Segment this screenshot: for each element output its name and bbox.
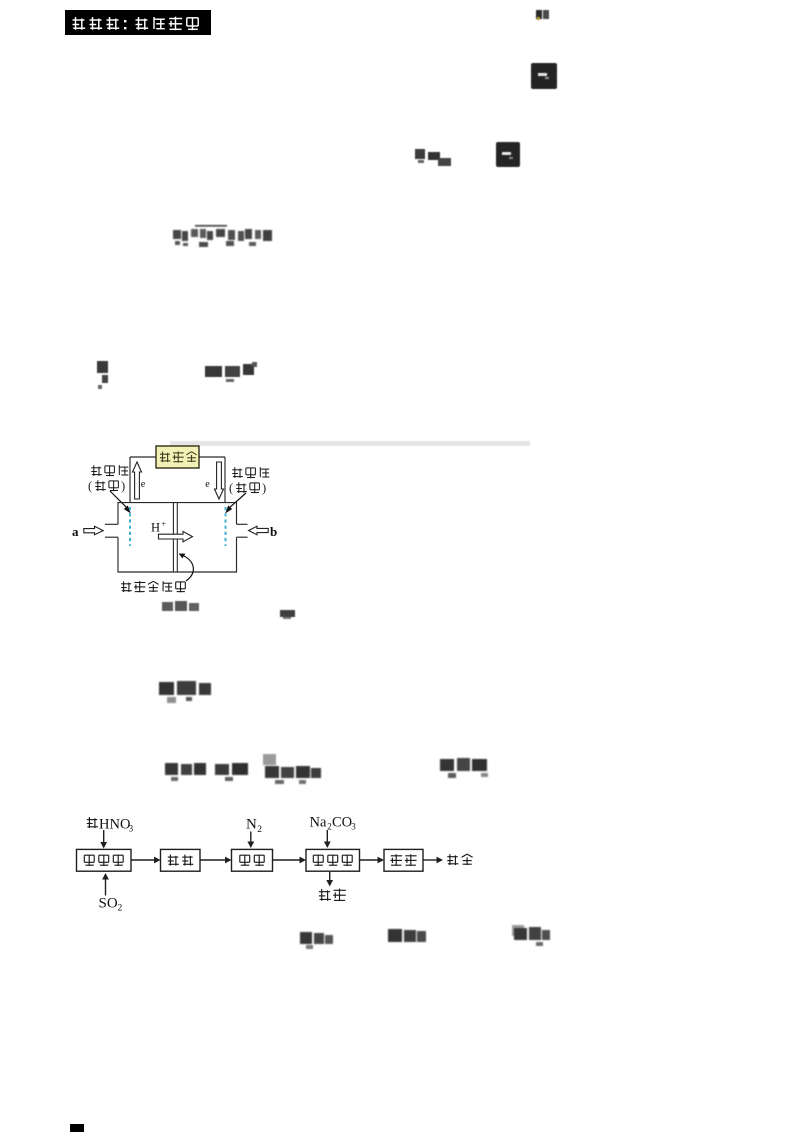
bottom left black square bbox=[70, 1124, 84, 1132]
fragment F9a bbox=[163, 760, 209, 784]
arrow B2 to B3 bbox=[200, 859, 227, 861]
curved pointer to membrane bbox=[181, 555, 193, 582]
arrow B3 to B4 bbox=[273, 859, 302, 861]
pointer arrow right label to electrode bbox=[227, 493, 246, 510]
svg-text:Na: Na bbox=[310, 815, 327, 831]
wire left vertical bbox=[129, 457, 131, 502]
header watermark box 公众号：云儿和花 bbox=[62, 8, 222, 38]
fragment below membrane label bbox=[160, 599, 206, 615]
label 尾气 bbox=[319, 889, 331, 901]
cell container bbox=[118, 503, 237, 525]
fragment F7 electrode equation scribble bbox=[202, 360, 264, 386]
inlet arrow b (hollow left) bbox=[249, 526, 269, 534]
fragment F1 top right tiny squares bbox=[534, 9, 554, 23]
arrow B4 to 尾气 bbox=[329, 872, 331, 882]
svg-text:SO: SO bbox=[99, 896, 118, 912]
label 质子交换膜 bbox=[121, 581, 185, 592]
fragment F4 H2 dark blob bbox=[495, 141, 523, 169]
svg-text:2: 2 bbox=[257, 825, 262, 835]
electron arrow left (up) bbox=[133, 462, 142, 499]
wire right vertical bbox=[224, 457, 226, 502]
结晶 box B5 bbox=[384, 849, 423, 871]
fragment F5 equation scribble row bbox=[171, 221, 275, 251]
svg-text:CO: CO bbox=[332, 815, 352, 831]
label 产品 bbox=[447, 854, 458, 865]
label 浓HNO3 bbox=[87, 817, 98, 828]
load box label 用电器 bbox=[160, 452, 197, 463]
svg-text:2: 2 bbox=[118, 904, 123, 914]
svg-text:(: ( bbox=[88, 479, 92, 493]
svg-text:): ) bbox=[121, 479, 125, 493]
svg-text:3: 3 bbox=[351, 822, 356, 832]
inlet arrow a (hollow right) bbox=[84, 526, 103, 535]
arrow B4 to B5 bbox=[360, 859, 380, 861]
svg-text:H: H bbox=[151, 521, 160, 535]
fragment F9d bbox=[438, 755, 494, 783]
svg-text:e: e bbox=[205, 479, 210, 490]
catalyst label right 催化剂(电极) bbox=[229, 467, 269, 495]
flow diagram bbox=[58, 805, 498, 925]
冷却 box B2 bbox=[161, 849, 201, 871]
gray band above fuel cell panel bbox=[170, 440, 532, 448]
arrow SO2 into B1 bbox=[105, 878, 107, 896]
catalyst label left 催化剂(电极) bbox=[88, 465, 128, 493]
load box 用电器 U1 bbox=[156, 446, 199, 468]
fragment F9c bbox=[261, 752, 325, 788]
electrode dashed line left (cyan) bbox=[129, 507, 131, 546]
svg-text:+: + bbox=[161, 519, 166, 529]
svg-text:e: e bbox=[141, 479, 146, 490]
svg-text:): ) bbox=[262, 481, 266, 495]
fragment F6 H2 electrode label bbox=[94, 359, 118, 393]
吸收塔 box B4 bbox=[306, 849, 360, 871]
svg-text:3: 3 bbox=[129, 824, 134, 834]
svg-text:a: a bbox=[72, 524, 79, 539]
arrow Na2CO3 into B4 bbox=[326, 830, 328, 843]
arrow B1 to B2 bbox=[131, 859, 156, 861]
proton exchange membrane (double line) bbox=[172, 502, 174, 572]
arrow N2 into B3 bbox=[250, 832, 252, 844]
svg-text:N: N bbox=[246, 817, 257, 833]
port mouth right bbox=[237, 523, 248, 525]
svg-text:(: ( bbox=[229, 481, 233, 495]
small mark below fuel cell bbox=[278, 607, 300, 621]
wire top right bbox=[199, 456, 225, 458]
fragment F8 浓H2SO4 blob bbox=[156, 679, 220, 707]
wire top left bbox=[130, 456, 156, 458]
fragment F2 H2 dark blob bbox=[530, 62, 560, 92]
fuel cell diagram bbox=[60, 432, 320, 612]
electrode dashed line right (cyan) bbox=[225, 507, 227, 546]
混合 box B3 bbox=[232, 849, 273, 871]
fragment F10a bbox=[298, 928, 336, 952]
fragment F9b bbox=[213, 760, 253, 784]
electron arrow right (down) bbox=[215, 462, 224, 499]
H+ arrow across membrane (hollow right) bbox=[159, 531, 193, 541]
fragment F10b bbox=[386, 926, 428, 950]
arrow HNO3 into B1 bbox=[103, 830, 105, 844]
fragment F10c bbox=[512, 924, 552, 950]
分解塔 tower box B1 bbox=[77, 849, 132, 871]
fragment F3 small scribbles bbox=[413, 146, 455, 170]
svg-text:b: b bbox=[270, 524, 277, 539]
arrow B5 to product bbox=[423, 859, 438, 861]
port mouth left bbox=[105, 523, 118, 525]
pointer arrow left label to electrode bbox=[110, 491, 129, 510]
